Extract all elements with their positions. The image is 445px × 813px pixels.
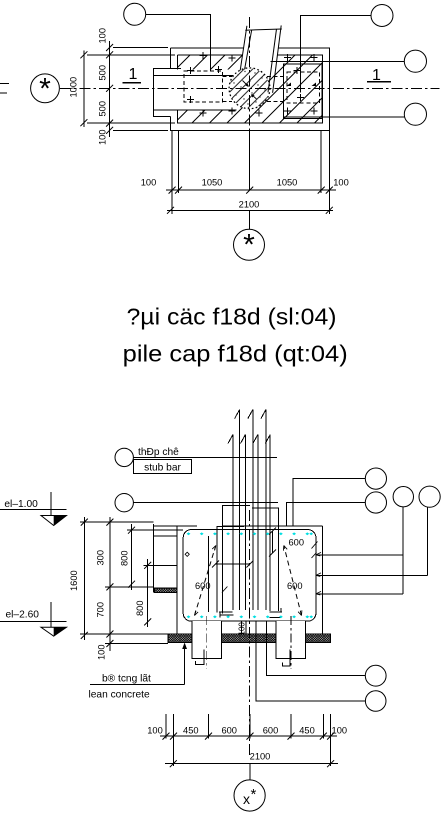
svg-text:1050: 1050 (277, 178, 298, 188)
grade beam left edge (153, 524, 155, 593)
diagonal beam top cut (245, 29, 281, 30)
stirrup diamond mark (185, 552, 189, 556)
svg-text:100: 100 (238, 622, 247, 636)
svg-text:el–2.60: el–2.60 (6, 610, 40, 621)
leader top-left (146, 14, 211, 71)
hook bars bubble (115, 494, 133, 512)
svg-text:stub bar: stub bar (144, 463, 181, 474)
concrete cap right edge (321, 526, 323, 634)
svg-text:pile cap f18d (qt:04): pile cap f18d (qt:04) (123, 341, 348, 367)
svg-text:*: * (251, 786, 257, 803)
horizontal centerline (60, 87, 439, 89)
callout circle F (365, 691, 386, 712)
pile P1 hatch (228, 67, 272, 111)
leader E (267, 621, 366, 676)
left dim 800 lower line (147, 559, 149, 627)
leader top-right (300, 16, 371, 93)
bent bar left (dashed) (195, 546, 216, 616)
svg-text:500: 500 (98, 101, 108, 117)
section centerline (248, 510, 250, 758)
diagonal beam edge C (268, 29, 277, 92)
pile P1 outline (dotted circle) (229, 68, 270, 109)
bottom dim chain 100/450/600/600/450/100 (160, 735, 337, 737)
pile left (192, 621, 222, 658)
svg-text:800: 800 (120, 550, 130, 566)
stub bars group short (228, 434, 270, 610)
stub bar label bubble (115, 448, 133, 466)
pile right bar (282, 649, 290, 666)
pile right centerline (290, 616, 292, 669)
leader D (316, 507, 428, 575)
diagonal beam edge A (240, 26, 247, 71)
svg-text:1000: 1000 (69, 77, 79, 98)
hook bar h4 (269, 434, 271, 611)
svg-text:1600: 1600 (69, 570, 79, 591)
leader C (316, 507, 403, 594)
left dim 1600 line (83, 517, 85, 640)
hook bar h1 (223, 506, 251, 614)
svg-text:600: 600 (195, 581, 211, 591)
stub bar leader (133, 456, 277, 458)
concrete cap top (154, 525, 323, 527)
svg-text:600: 600 (287, 581, 303, 591)
svg-text:100: 100 (98, 129, 108, 145)
grade beam lean concrete (154, 588, 177, 593)
left dim 800 upper line (131, 524, 133, 590)
hook bar h3 (217, 527, 244, 613)
center dim 100 verticals (241, 621, 246, 634)
pile right (276, 621, 306, 658)
svg-text:100: 100 (333, 178, 349, 188)
svg-text:100: 100 (97, 644, 107, 660)
extra cap bar (207, 536, 209, 612)
dim chain left: 100/500/500/100 line (109, 41, 111, 137)
pile cap outer outline (171, 48, 330, 130)
leader drop B (287, 503, 366, 527)
bottom hooks right (270, 608, 282, 617)
left margin stubs (0, 83, 9, 93)
svg-text:450: 450 (183, 726, 199, 736)
rebar cage outline (183, 530, 316, 622)
detail bubble plan bottom (249, 210, 251, 229)
leader right-2 (283, 116, 404, 118)
svg-text:*: * (39, 73, 51, 106)
stub bars group tall (235, 410, 266, 610)
diagonal beam edge D (273, 25, 282, 92)
svg-text:1050: 1050 (202, 178, 223, 188)
svg-text:2100: 2100 (250, 752, 271, 762)
hidden beam lines (dashed) (222, 77, 287, 102)
leader right-1 (271, 61, 405, 63)
label stub bar box (133, 460, 191, 474)
grade beam inner line (154, 535, 177, 537)
svg-text:2100: 2100 (239, 200, 260, 210)
bottom dim 2100 (165, 763, 338, 765)
leader F (256, 621, 365, 701)
tick marks cage right (312, 542, 318, 559)
pile left centerline (206, 616, 208, 669)
column hidden outline (dashed) (184, 71, 223, 102)
callout bubble top-left (124, 3, 146, 25)
left dim 300/700/100 line (109, 517, 111, 651)
rebar cross markers (187, 52, 318, 116)
pile cap inner outline (177, 55, 322, 123)
cage bar dots bottom (187, 615, 313, 618)
svg-text:100: 100 (147, 726, 163, 736)
beam edge lines (153, 75, 233, 77)
bottom hooks left (219, 612, 234, 618)
callout circle A (365, 468, 386, 489)
svg-text:100: 100 (98, 28, 108, 44)
right block outline (283, 64, 322, 119)
bent bar right (dashed) (284, 546, 302, 616)
bar end marks in right block (287, 83, 292, 87)
svg-text:el–1.00: el–1.00 (4, 499, 38, 510)
callout circle E (365, 665, 386, 686)
detail bubble bottom (249, 764, 251, 780)
svg-text:thÐp chê: thÐp chê (138, 447, 179, 458)
leader drop A (293, 479, 365, 526)
dim line 100/1050/1050/100 (166, 189, 336, 191)
callout circle B (365, 492, 386, 513)
svg-text:lean concrete: lean concrete (89, 690, 150, 701)
dim extension lines left (87, 48, 175, 131)
callout bubble right-2 (404, 103, 426, 125)
lean concrete strip (168, 634, 331, 643)
inner dim line with ticks (216, 563, 250, 565)
bottom dim extension lines (166, 714, 331, 766)
bottom dim extension lines (172, 131, 329, 214)
svg-text:800: 800 (135, 600, 145, 616)
pile P1 stipple dots (233, 71, 265, 105)
svg-text:300: 300 (95, 550, 105, 566)
callout bubble right-1 (404, 50, 426, 72)
svg-text:600: 600 (221, 726, 237, 736)
pile P1 leader arrows (243, 81, 249, 87)
svg-text:?µi cäc f18d (sl:04): ?µi cäc f18d (sl:04) (127, 304, 337, 330)
right block hidden rect (dashed) (287, 72, 319, 103)
hook bars leader (133, 502, 277, 504)
svg-text:*: * (243, 229, 255, 262)
dim chain left: 1000 line (83, 51, 85, 128)
concrete cap inner left edge (176, 526, 178, 634)
dim line 2100 (167, 209, 333, 211)
svg-text:600: 600 (263, 726, 279, 736)
beam stub left protrusion (153, 69, 181, 117)
grid bubble left (31, 74, 60, 103)
callout bubble top-right (371, 5, 393, 27)
svg-text:500: 500 (98, 65, 108, 81)
pile left bar (195, 649, 203, 664)
diagonal beam edge B (245, 30, 252, 70)
callout circle C (393, 487, 413, 507)
svg-text:600: 600 (289, 538, 305, 548)
svg-text:1: 1 (129, 66, 138, 83)
cage bar dots top (187, 532, 313, 535)
svg-text:x: x (243, 791, 250, 807)
svg-text:700: 700 (95, 602, 105, 618)
pile cap concrete hatch (153, 30, 323, 124)
callout circle D (419, 486, 440, 507)
svg-text:b® tcng lãt: b® tcng lãt (102, 674, 151, 685)
svg-text:100: 100 (141, 178, 157, 188)
left dim extension lines (80, 522, 183, 643)
svg-text:100: 100 (332, 726, 348, 736)
hook bar h2 (252, 508, 279, 611)
svg-text:450: 450 (299, 726, 315, 736)
vertical centerline (249, 17, 251, 155)
